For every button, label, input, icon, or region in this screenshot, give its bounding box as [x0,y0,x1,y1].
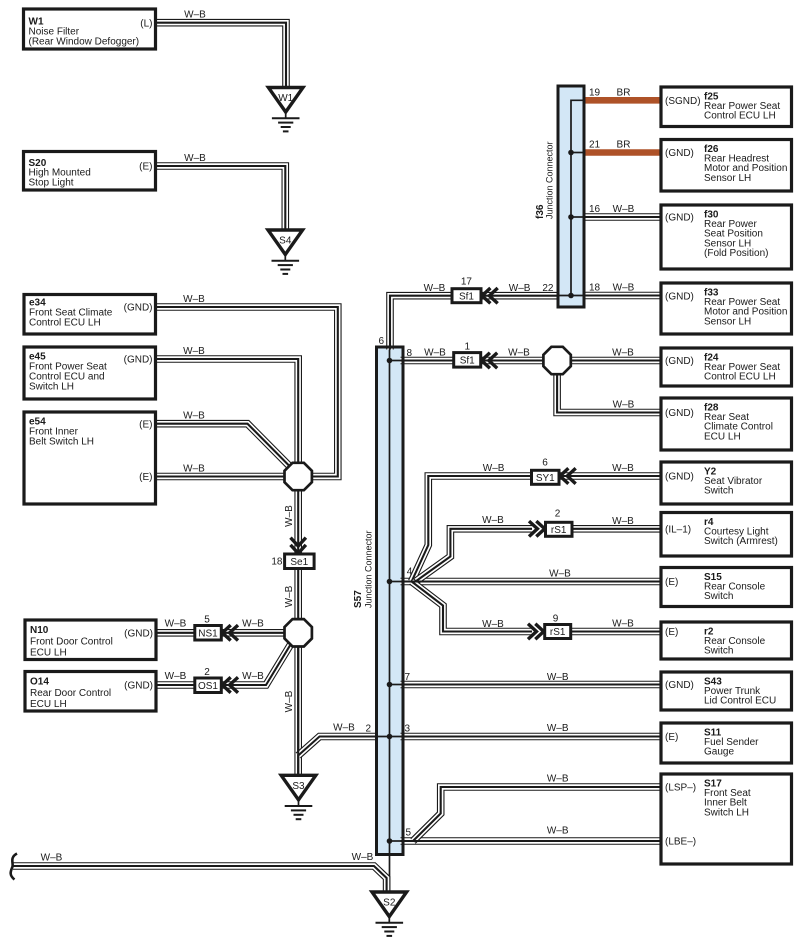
connector arrows SY1 [560,468,576,483]
svg-text:Control ECU LH: Control ECU LH [704,111,776,122]
wire bottom left to ground S2 (W-B) [13,866,387,892]
svg-text:Sensor LH: Sensor LH [704,173,751,184]
svg-text:(GND): (GND) [665,680,694,691]
wire f36 pin 21 to f26 (BR) [584,149,661,156]
component f33 Rear Power Seat Motor and Position Sensor LH [661,283,792,334]
svg-text:Front Door Control: Front Door Control [30,636,113,647]
svg-text:5: 5 [204,615,210,626]
junction dot f36 pin 18 [568,293,574,299]
wire core restore pin 5 [401,840,662,842]
wire S57 pin 8 to Sf1 1 (W-B) [401,357,455,365]
wire Sf1 17 to f36 pin 22 (W-B) [481,292,560,300]
wire f36 pin 19 to f25 (BR) [584,97,661,104]
junction dot S57 pin 4 [387,579,393,585]
component S17 Front Seat Inner Belt Switch LH [661,774,792,864]
svg-text:6: 6 [378,336,384,347]
svg-text:Se1: Se1 [290,557,308,568]
svg-text:W–B: W–B [284,505,295,527]
svg-text:(LBE–): (LBE–) [665,837,696,848]
svg-text:Lid Control ECU: Lid Control ECU [704,696,776,707]
svg-text:W–B: W–B [508,348,530,359]
ground W1 [268,88,303,132]
svg-text:OS1: OS1 [198,681,218,692]
wire e34 to splice (W-B) [155,307,338,477]
svg-text:NS1: NS1 [198,628,218,639]
svg-text:Control ECU LH: Control ECU LH [29,318,101,329]
svg-text:(LSP–): (LSP–) [665,783,696,794]
wire S57 pin 5 branch to S17 LSP (W-B) [413,787,661,841]
svg-text:ECU LH: ECU LH [30,648,67,659]
svg-text:(IL–1): (IL–1) [665,524,691,535]
f36 stub pin 21 [571,152,584,154]
svg-text:Switch: Switch [704,486,733,497]
svg-text:W–B: W–B [612,348,634,359]
connector rS1 pin 2 [546,522,573,536]
svg-text:W–B: W–B [612,619,634,630]
junction dot S57 pin 7 [387,682,393,688]
svg-text:ECU LH: ECU LH [704,431,741,442]
svg-text:W–B: W–B [612,463,634,474]
connector Sf1 pin 1 [454,353,481,368]
svg-text:(Rear Window Defogger): (Rear Window Defogger) [29,37,140,48]
svg-text:SY1: SY1 [536,473,555,484]
wire OS1 to splice 2 (W-B) [220,644,291,685]
wire splice 2 to ground S3 (W-B) [294,646,302,776]
svg-text:7: 7 [404,672,410,683]
connector SY1 pin 6 [532,470,560,484]
wire Se1 to splice 2 (W-B) [294,568,302,620]
svg-text:W–B: W–B [547,723,569,734]
svg-text:(E): (E) [665,732,678,743]
svg-text:8: 8 [407,348,413,359]
wire S20 to ground S4 (W-B) [155,166,285,231]
svg-text:Belt Switch LH: Belt Switch LH [29,437,94,448]
svg-text:(E): (E) [139,419,152,430]
wire e54 upper (E) to splice (W-B) [155,424,290,467]
svg-text:Rear Door Control: Rear Door Control [30,688,111,699]
svg-text:rS1: rS1 [551,525,567,536]
svg-text:W–B: W–B [352,852,374,863]
component N10 Front Door Control ECU LH [25,620,156,660]
ground S2 [372,892,407,936]
svg-text:W1: W1 [278,93,293,104]
svg-text:Stop Light: Stop Light [29,178,74,189]
svg-text:(GND): (GND) [124,303,153,314]
f36 internal busbar [571,100,584,295]
svg-text:W–B: W–B [183,294,205,305]
wire break symbol at left end [11,854,17,880]
svg-text:W–B: W–B [165,619,187,630]
svg-text:5: 5 [405,828,411,839]
connector arrows NS1 [222,625,238,640]
wire S57 pin 4 branch to SY1 (W-B) [412,476,532,582]
svg-text:21: 21 [589,140,601,151]
junction dot f36 pin 16 [568,214,574,220]
svg-text:ECU LH: ECU LH [30,699,67,710]
svg-text:(GND): (GND) [665,356,694,367]
svg-text:4: 4 [407,567,413,578]
svg-text:W–B: W–B [183,411,205,422]
component S20 High Mounted Stop Light [24,152,156,191]
wire splice 3 to f24 (W-B) [571,357,662,365]
component f28 Rear Seat Climate Control ECU LH [661,398,792,450]
svg-text:Sf1: Sf1 [460,355,475,366]
component e34 Front Seat Climate Control ECU LH [24,295,156,335]
component S15 Rear Console Switch [661,568,792,607]
svg-text:W–B: W–B [242,671,264,682]
component W1 Noise Filter [24,9,156,49]
svg-text:S57: S57 [353,590,364,608]
svg-text:W–B: W–B [509,283,531,294]
connector arrows Sf1 1 [482,353,498,368]
splice junction 2 (N10/O14) [285,619,312,646]
ground S4 [268,230,303,274]
svg-text:W–B: W–B [547,672,569,683]
component r2 Rear Console Switch [661,622,792,659]
connector arrows rS1 9 [528,624,544,639]
svg-text:(GND): (GND) [665,148,694,159]
junction connector f36 border [558,86,584,307]
svg-text:W–B: W–B [547,826,569,837]
svg-text:19: 19 [589,87,601,98]
component S43 Power Trunk Lid Control ECU [661,672,792,710]
svg-text:W–B: W–B [183,346,205,357]
component e54 Front Inner Belt Switch LH [24,412,156,504]
splice junction 3 (f24/f28) [543,347,570,374]
svg-text:N10: N10 [30,625,49,636]
junction dot S57 pin 5 [387,838,393,844]
svg-text:17: 17 [461,277,473,288]
wire rS1 9 to r2 (W-B) [570,628,662,636]
wire core restore pin 4 [401,580,662,582]
svg-text:2: 2 [555,509,561,520]
S57 internal busbar [389,348,391,892]
svg-text:W–B: W–B [424,348,446,359]
svg-text:W–B: W–B [613,283,635,294]
connector arrows Se1 [291,538,306,554]
svg-text:Control ECU LH: Control ECU LH [704,372,776,383]
svg-text:W–B: W–B [613,400,635,411]
wire e54 lower (E) to splice (W-B) [155,473,285,481]
connector Sf1 pin 17 [452,289,481,303]
svg-text:(GND): (GND) [665,472,694,483]
connector OS1 pin 2 [195,678,222,693]
wire core restore S3 vertical [297,646,299,776]
wire N10 to NS1 (W-B) [155,629,196,637]
svg-text:Junction Connector: Junction Connector [545,141,555,219]
connector arrows rS1 2 [529,521,545,536]
svg-text:Switch LH: Switch LH [29,382,74,393]
ground S3 [281,775,316,819]
f36 pin stubs inside bar [558,217,584,296]
svg-text:W–B: W–B [284,585,295,607]
junction connector f36 body [558,86,584,307]
svg-text:Sf1: Sf1 [459,291,474,302]
component S11 Fuel Sender Gauge [661,723,792,763]
wire e45 to splice (W-B) [155,359,298,464]
svg-text:W–B: W–B [483,463,505,474]
wire Sf1 1 to splice 3 (W-B) [480,357,544,365]
component f26 Rear Headrest Motor and Position Sensor LH [661,140,792,192]
junction connector S57 body [377,347,404,855]
svg-text:22: 22 [542,283,554,294]
svg-text:(E): (E) [139,472,152,483]
component f25 Rear Power Seat Control ECU LH [661,87,792,127]
svg-text:W–B: W–B [482,619,504,630]
component O14 Rear Door Control ECU LH [25,672,156,712]
svg-text:W–B: W–B [184,10,206,21]
connector Se1 pin 18 [285,554,315,569]
svg-text:W–B: W–B [612,516,634,527]
svg-text:18: 18 [271,556,283,567]
component f24 Rear Power Seat Control ECU LH [661,348,792,386]
wire f36 pin 18 to f33 (W-B) [583,292,662,300]
svg-text:(GND): (GND) [665,213,694,224]
splice junction 1 (e34/e45/e54) [285,463,312,490]
svg-text:Switch: Switch [704,646,733,657]
svg-text:(E): (E) [139,162,152,173]
svg-text:(GND): (GND) [124,355,153,366]
svg-text:(L): (L) [140,18,152,29]
svg-text:Switch LH: Switch LH [704,807,749,818]
svg-text:S2: S2 [383,898,396,909]
svg-text:W–B: W–B [41,853,63,864]
svg-text:2: 2 [366,724,372,735]
svg-text:W–B: W–B [165,671,187,682]
component r4 Courtesy Light Switch [661,513,792,557]
svg-text:S4: S4 [279,236,292,247]
svg-text:S3: S3 [292,781,305,792]
svg-text:6: 6 [542,458,548,469]
svg-text:W–B: W–B [482,515,504,526]
component f30 Rear Power Seat Position Sensor LH [661,205,792,269]
svg-text:(GND): (GND) [124,628,153,639]
svg-text:rS1: rS1 [550,627,566,638]
wire S57 pin 3 to S11 (W-B) [401,733,662,741]
svg-text:Gauge: Gauge [704,747,734,758]
svg-text:(GND): (GND) [124,681,153,692]
svg-text:1: 1 [465,342,471,353]
svg-text:(GND): (GND) [665,408,694,419]
svg-text:W–B: W–B [547,774,569,785]
junction connector S57 border [377,347,404,855]
svg-text:W–B: W–B [613,204,635,215]
component Y2 Seat Vibrator Switch [661,462,792,504]
svg-text:(E): (E) [665,577,678,588]
junction dot S57 pin 8 [387,358,393,364]
svg-text:16: 16 [589,204,601,215]
svg-text:Junction Connector: Junction Connector [364,530,374,608]
svg-text:BR: BR [617,87,631,98]
svg-text:W–B: W–B [184,153,206,164]
wire f36 pin 16 to f30 (W-B) [583,213,662,221]
svg-text:9: 9 [553,614,559,625]
svg-text:W–B: W–B [183,464,205,475]
connector arrows Sf1 17 [482,288,498,303]
wire S57 pin 4 branch to rS1 9 (W-B) [412,582,532,632]
wire S57 pin 7 to S43 (W-B) [401,681,662,689]
wire O14 to OS1 (W-B) [155,681,196,689]
svg-text:Sensor LH: Sensor LH [704,316,751,327]
component e45 Front Power Seat Control ECU and Switch LH [24,347,156,399]
svg-text:18: 18 [589,283,601,294]
wire SY1 to Y2 (W-B) [558,472,661,480]
svg-text:2: 2 [204,667,210,678]
svg-text:(GND): (GND) [665,291,694,302]
wire W1 to ground W1 (W-B) [155,23,286,88]
connector rS1 pin 9 [545,625,571,639]
svg-text:W–B: W–B [424,283,446,294]
wire S57 pin 6 to Sf1 17 (W-B) [390,296,453,350]
svg-text:3: 3 [404,724,410,735]
wire S57 pin 4 to S15 (W-B) [401,578,662,586]
svg-text:W–B: W–B [333,723,355,734]
svg-text:Switch (Armrest): Switch (Armrest) [704,536,778,547]
S57 pin stubs inside bar [375,361,404,842]
junction dot f36 pin 21 [568,150,574,156]
wire S57 pin 5 to S17 LBE (W-B) [401,837,662,845]
connector arrows OS1 [222,677,238,692]
wire splice 3 to f28 (W-B) [557,374,661,413]
svg-text:W–B: W–B [284,690,295,712]
wire NS1 to splice 2 (W-B) [220,629,285,637]
wire rS1 2 to r4 (W-B) [571,525,662,533]
svg-text:O14: O14 [30,677,49,688]
svg-text:(Fold Position): (Fold Position) [704,248,768,259]
svg-text:Switch: Switch [704,591,733,602]
wire splice to Se1 (W-B) [294,490,302,556]
junction dot S57 pin 3 [387,734,393,740]
svg-text:BR: BR [617,140,631,151]
wire S57 pin 4 branch to rS1 2 (W-B) [416,529,533,582]
svg-text:W–B: W–B [549,569,571,580]
wire branch splice to S57 pin 2 (W-B) [298,737,375,756]
svg-text:W–B: W–B [242,619,264,630]
svg-text:(SGND): (SGND) [665,96,701,107]
svg-text:(E): (E) [665,627,678,638]
connector NS1 pin 5 [195,626,222,641]
